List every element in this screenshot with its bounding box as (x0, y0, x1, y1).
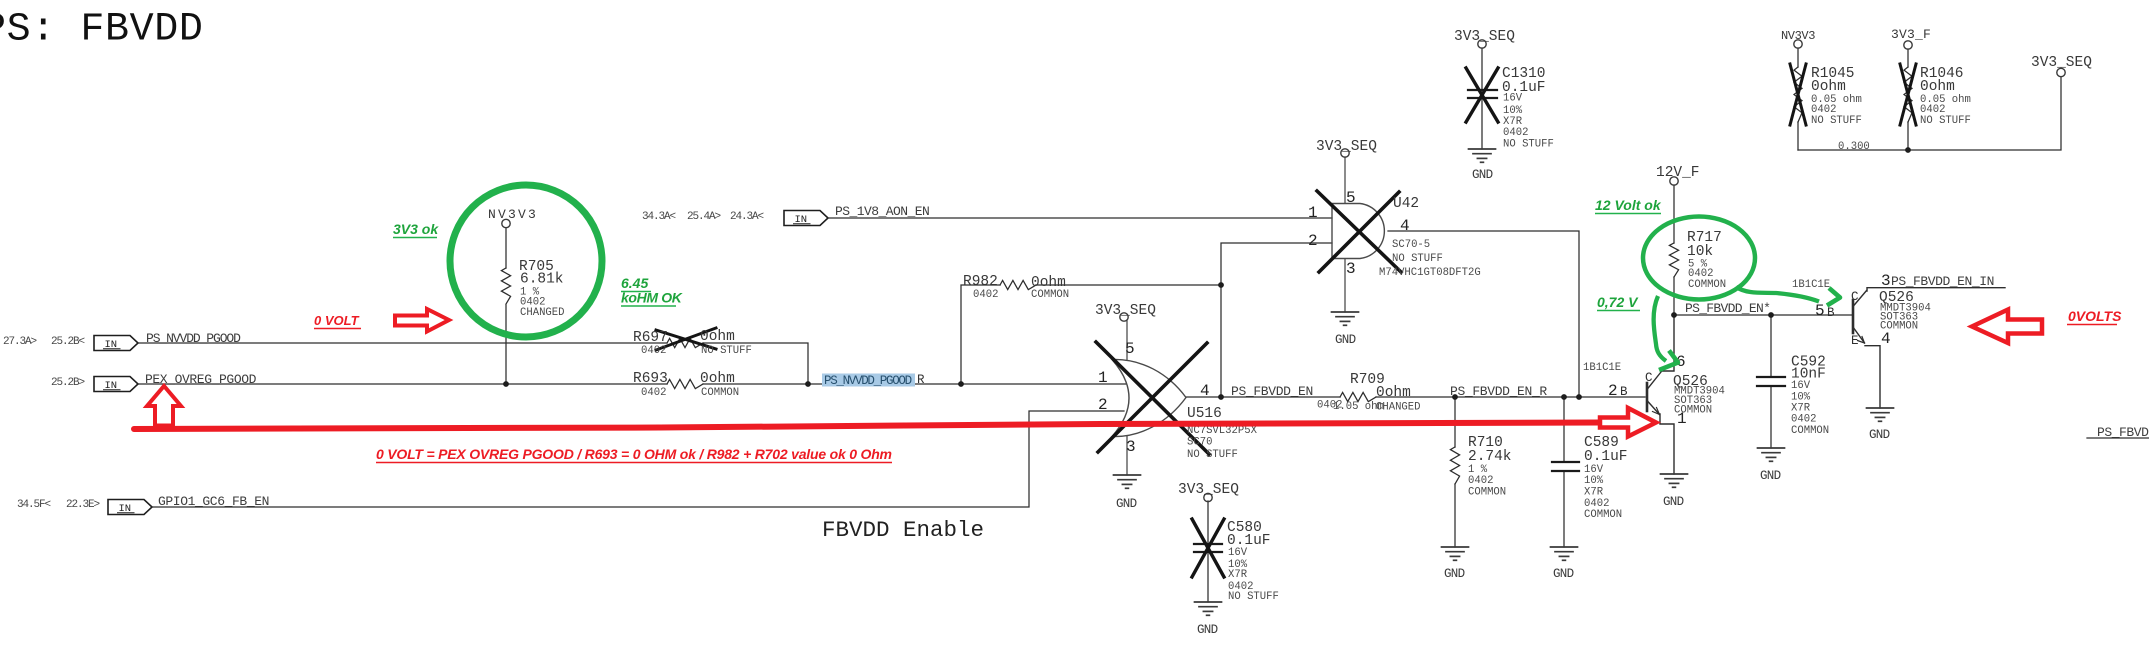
node junction C589 top (1561, 394, 1567, 400)
svg-text:3: 3 (1126, 438, 1136, 456)
ground C589 (1551, 547, 1578, 560)
power 12V_F (1670, 177, 1678, 185)
svg-text:GND: GND (1663, 495, 1684, 509)
power NV3V3 R705 (502, 219, 510, 227)
annotation red arrow left at Q526 right (1972, 310, 2042, 344)
svg-text:PS_FBVDD_EN_IN: PS_FBVDD_EN_IN (1891, 274, 1994, 289)
svg-text:25.4A>: 25.4A> (687, 211, 721, 223)
wire GPIO1_GC6_FB_EN (152, 411, 1124, 507)
resistor R705 (501, 268, 510, 304)
svg-text:C: C (1851, 290, 1859, 304)
svg-text:4: 4 (1200, 382, 1210, 400)
svg-text:U516: U516 (1187, 406, 1222, 422)
resistor R709 (1340, 392, 1376, 401)
svg-text:CHANGED: CHANGED (1376, 402, 1421, 414)
svg-text:1: 1 (1098, 369, 1108, 387)
ground C592 (1758, 448, 1785, 461)
svg-text:GND: GND (1444, 567, 1465, 581)
annotation green arrow to base of Q526 right (1736, 287, 1819, 302)
svg-text:PS_FBVDD_EN*: PS_FBVDD_EN* (1685, 301, 1770, 316)
no-stuff cross C580 (1192, 519, 1224, 577)
svg-text:R982: R982 (963, 274, 998, 290)
wire R1045 branch (1797, 48, 1799, 150)
svg-text:0ohm: 0ohm (700, 371, 735, 387)
svg-text:3V3_SEQ: 3V3_SEQ (1454, 29, 1515, 45)
power 3V3_SEQ C580 (1204, 493, 1212, 501)
ground C1310 (1469, 149, 1496, 162)
node junction U42 out down (1576, 394, 1582, 400)
node junction R982 left (958, 381, 964, 387)
no-stuff cross R1046 (1900, 64, 1916, 125)
annotation red arrow up at PEX_OVREG_PGOOD (147, 386, 181, 426)
svg-text:2: 2 (1098, 396, 1108, 414)
svg-text:X7R: X7R (1584, 487, 1604, 499)
svg-text:U42: U42 (1393, 196, 1419, 212)
op-amp U42 AND-gate body (1332, 204, 1384, 259)
wire R1046 branch (1907, 49, 1909, 150)
svg-text:1B1C1E: 1B1C1E (1583, 362, 1621, 374)
svg-text:GPIO1_GC6_FB_EN: GPIO1_GC6_FB_EN (158, 494, 269, 509)
svg-text:4: 4 (1400, 217, 1410, 235)
svg-text:0VOLTS: 0VOLTS (2068, 308, 2122, 324)
svg-text:0ohm: 0ohm (1376, 385, 1411, 401)
transistor Q526 right (1853, 288, 2005, 408)
wire PS_FBVDD_EN* row (1674, 314, 1853, 316)
svg-text:PS_1V8_AON_EN: PS_1V8_AON_EN (835, 204, 929, 219)
svg-text:M74VHC1GT08DFT2G: M74VHC1GT08DFT2G (1379, 267, 1481, 279)
svg-text:5: 5 (1815, 302, 1825, 320)
node junction R697 right (805, 381, 811, 387)
svg-text:C: C (1645, 371, 1653, 385)
node junction R710 top (1452, 394, 1458, 400)
power 3V3_F R1046 (1904, 41, 1912, 49)
resistor R697 (667, 338, 703, 347)
svg-text:0402: 0402 (1503, 127, 1528, 139)
svg-text:GND: GND (1335, 333, 1356, 347)
no-stuff cross R1045 (1790, 64, 1806, 125)
svg-text:B: B (1827, 306, 1835, 320)
svg-text:34.3A<: 34.3A< (642, 211, 676, 223)
svg-text:3V3_SEQ: 3V3_SEQ (1316, 139, 1377, 155)
svg-text:4: 4 (1881, 330, 1891, 348)
ground U42 (1332, 312, 1359, 325)
svg-text:0402: 0402 (973, 289, 998, 301)
svg-text:12 Volt ok: 12 Volt ok (1595, 197, 1662, 213)
svg-text:GND: GND (1116, 497, 1137, 511)
wire PS_1V8_AON_EN (828, 217, 1332, 219)
svg-text:3: 3 (1346, 260, 1356, 278)
wire U42 output down to PS_FBVDD_EN_R (1388, 231, 1579, 397)
svg-text:3V3_SEQ: 3V3_SEQ (1095, 303, 1156, 319)
svg-text:0.1uF: 0.1uF (1584, 449, 1628, 465)
svg-text:PS_NVVDD_PGOOD: PS_NVVDD_PGOOD (146, 331, 241, 346)
power 3V3_SEQ U42 (1341, 149, 1349, 157)
connector IN PS_NVVDD_PGOOD (94, 336, 138, 352)
svg-text:NO STUFF: NO STUFF (1187, 449, 1238, 461)
svg-text:0402: 0402 (641, 345, 666, 357)
wire PEX_OVREG_PGOOD row (135, 383, 1126, 385)
connector IN GPIO1_GC6_FB_EN (108, 500, 152, 516)
wire R982 net (961, 243, 1332, 397)
svg-text:COMMON: COMMON (1031, 289, 1069, 301)
resistor R1046 (1904, 67, 1912, 122)
no-stuff cross U42 (1317, 191, 1401, 272)
svg-text:koHM OK: koHM OK (621, 290, 683, 306)
svg-text:34.5F<: 34.5F< (17, 499, 51, 511)
svg-text:PS_FBVDD: PS_FBVDD (2097, 425, 2149, 440)
node junction C592 top (1768, 312, 1774, 318)
svg-text:5: 5 (1125, 340, 1135, 358)
svg-text:2.74k: 2.74k (1468, 449, 1512, 465)
svg-text:5: 5 (1346, 189, 1356, 207)
power 3V3_SEQ right (2057, 68, 2065, 76)
svg-text:NV3V3: NV3V3 (1781, 29, 1815, 43)
svg-text:1: 1 (1308, 204, 1318, 222)
svg-text:25.2B<: 25.2B< (51, 336, 85, 348)
wire NV3V3 to R705 to PEX_OVREG_PGOOD (505, 228, 507, 384)
wire PS_FBVD stub bottom right (2087, 437, 2149, 439)
svg-text:B: B (1620, 385, 1628, 399)
highlighted node PS_NVVDD_PGOOD_R (822, 374, 915, 387)
svg-text:10%: 10% (1584, 475, 1604, 487)
svg-text:16V: 16V (1791, 380, 1811, 392)
node junction U516 out (1218, 394, 1224, 400)
svg-text:NO STUFF: NO STUFF (1920, 115, 1971, 127)
wire 0.300 horizontal net (1798, 77, 2061, 150)
wire 12V_F to R717 (1673, 185, 1675, 315)
svg-text:SC70: SC70 (1187, 437, 1212, 449)
svg-text:COMMON: COMMON (1468, 487, 1506, 499)
power NV3V3 R1045 (1794, 40, 1802, 48)
svg-text:0 VOLT: 0 VOLT (314, 313, 360, 328)
svg-text:16V: 16V (1503, 93, 1523, 105)
svg-text:3V3_SEQ: 3V3_SEQ (1178, 482, 1239, 498)
capacitor C589 (1563, 397, 1565, 547)
svg-text:R697: R697 (633, 330, 668, 346)
svg-text:0ohm: 0ohm (1811, 79, 1846, 95)
svg-text:3V3_SEQ: 3V3_SEQ (2031, 55, 2092, 71)
no-stuff cross U516 (1096, 342, 1209, 454)
svg-text:NO STUFF: NO STUFF (701, 345, 752, 357)
svg-text:12V_F: 12V_F (1656, 165, 1700, 181)
svg-text:0402: 0402 (1791, 414, 1816, 426)
wire U516 pin5 stub (1126, 321, 1128, 360)
node junction R717 bottom (1671, 312, 1677, 318)
svg-text:0.300: 0.300 (1838, 141, 1870, 153)
svg-text:NO STUFF: NO STUFF (1228, 591, 1279, 603)
svg-text:GND: GND (1197, 623, 1218, 637)
svg-text:1: 1 (1677, 410, 1687, 428)
svg-text:FBVDD Enable: FBVDD Enable (822, 517, 984, 543)
svg-text:GND: GND (1553, 567, 1574, 581)
wire U42 pin3 stub to GND (1344, 259, 1346, 312)
wire PS_NVVDD_PGOOD row (135, 343, 808, 383)
power 3V3_SEQ C1310 (1478, 40, 1486, 48)
svg-text:PS_FBVDD_EN: PS_FBVDD_EN (1231, 384, 1313, 399)
svg-text:NO STUFF: NO STUFF (1392, 253, 1443, 265)
ground C580 (1195, 602, 1222, 615)
svg-text:GND: GND (1472, 168, 1493, 182)
wire U516 output PS_FBVDD_EN row (1186, 396, 1645, 398)
svg-text:16V: 16V (1228, 547, 1248, 559)
svg-text:3V3 ok: 3V3 ok (393, 221, 439, 237)
svg-text:GND: GND (1760, 469, 1781, 483)
ground R710 (1442, 547, 1469, 560)
ground U516 (1114, 475, 1141, 488)
svg-text:24.3A<: 24.3A< (730, 211, 764, 223)
svg-text:3V3_F: 3V3_F (1891, 27, 1931, 42)
svg-text:0ohm: 0ohm (700, 329, 735, 345)
connector IN PEX_OVREG_PGOOD (94, 377, 138, 393)
annotation red arrow right at Q526 emitter (1600, 408, 1656, 437)
svg-text:3: 3 (1881, 272, 1891, 290)
resistor R982 (1000, 280, 1036, 289)
svg-text:R693: R693 (633, 371, 668, 387)
svg-text:E: E (1851, 334, 1859, 348)
ground Q526 right (1867, 408, 1894, 421)
svg-text:2: 2 (1308, 232, 1318, 250)
wire U42 pin5 stub (1344, 157, 1346, 203)
svg-text:SC70-5: SC70-5 (1392, 239, 1430, 251)
svg-text:0,72 V: 0,72 V (1597, 294, 1639, 310)
svg-text:PS_NVVDD_PGOOD: PS_NVVDD_PGOOD (824, 374, 912, 388)
svg-text:COMMON: COMMON (701, 387, 739, 399)
svg-text:COMMON: COMMON (1584, 509, 1622, 521)
resistor R710 (1450, 447, 1459, 484)
svg-text:PS_FBVDD_EN_R: PS_FBVDD_EN_R (1450, 384, 1547, 399)
svg-text:NV3V3: NV3V3 (488, 207, 538, 222)
no-stuff cross R697 (656, 328, 716, 350)
svg-text:X7R: X7R (1228, 569, 1248, 581)
wire R710 to GND (1454, 397, 1456, 547)
annotation red arrow right at 0 VOLT (395, 309, 449, 332)
annotation green arrow to pin 6 (1654, 296, 1666, 361)
connector IN PS_1V8_AON_EN (784, 211, 828, 227)
svg-text:22.3E>: 22.3E> (66, 499, 100, 511)
op-amp U516 OR-gate body (1112, 359, 1186, 436)
no-stuff cross C1310 (1466, 68, 1498, 122)
svg-text:2: 2 (1608, 382, 1618, 400)
capacitor C580 (1207, 501, 1209, 602)
capacitor C1310 (1481, 48, 1483, 149)
svg-text:R: R (917, 373, 925, 387)
svg-text:NO STUFF: NO STUFF (1503, 139, 1554, 151)
svg-text:27.3A>: 27.3A> (3, 336, 37, 348)
title PS: FBVDD (0, 17, 2, 22)
annotation green ellipse around R717 (1643, 217, 1755, 300)
svg-text:GND: GND (1869, 428, 1890, 442)
svg-text:NC7SVL32P5X: NC7SVL32P5X (1187, 425, 1258, 437)
svg-text:0402: 0402 (641, 387, 666, 399)
node junction R982 right (1218, 282, 1224, 288)
svg-text:NO STUFF: NO STUFF (1811, 115, 1862, 127)
svg-text:0ohm: 0ohm (1920, 79, 1955, 95)
node junction R1046 bottom (1905, 147, 1911, 153)
svg-text:PEX_OVREG_PGOOD: PEX_OVREG_PGOOD (145, 372, 257, 387)
svg-text:COMMON: COMMON (1688, 279, 1726, 291)
capacitor C592 (1770, 315, 1772, 448)
svg-text:0 VOLT = PEX OVREG PGOOD / R6: 0 VOLT = PEX OVREG PGOOD / R693 = 0 OHM … (376, 446, 892, 462)
svg-text:6.81k: 6.81k (520, 272, 564, 288)
annotation red long line (134, 423, 1602, 430)
transistor Q526 left (1647, 315, 1674, 474)
ground Q526 left (1661, 474, 1688, 487)
svg-text:COMMON: COMMON (1791, 425, 1829, 437)
resistor R717 (1669, 243, 1678, 277)
svg-text:PS: FBVDD: PS: FBVDD (0, 8, 203, 53)
power 3V3_SEQ U516 (1120, 313, 1128, 321)
svg-text:0402: 0402 (1468, 475, 1493, 487)
annotation green circle around R705 (450, 185, 602, 337)
svg-text:1B1C1E: 1B1C1E (1792, 279, 1830, 291)
resistor R1045 (1794, 67, 1802, 122)
resistor R693 (667, 379, 703, 388)
svg-text:CHANGED: CHANGED (520, 307, 565, 319)
wire U516 pin3 stub to GND (1126, 436, 1128, 475)
svg-text:25.2B>: 25.2B> (51, 377, 85, 389)
node junction PS_NVVDD_PGOOD/R705 (503, 381, 509, 387)
